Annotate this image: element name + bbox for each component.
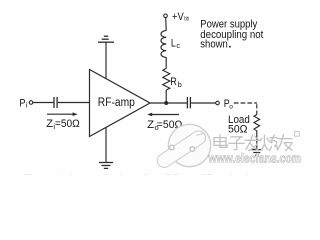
inductor Lc bbox=[161, 31, 166, 58]
label Po bbox=[224, 98, 233, 110]
char dian (electric) bbox=[214, 135, 227, 148]
wire C1 to amplifier input bbox=[58, 102, 90, 104]
label Lc bbox=[171, 37, 181, 50]
svg-text:bb: bb bbox=[184, 15, 189, 22]
svg-text:o: o bbox=[229, 103, 233, 110]
node Pi input terminal bbox=[29, 101, 33, 105]
resistor Rb bbox=[163, 68, 170, 90]
svg-text:Z: Z bbox=[46, 118, 53, 130]
arrow output impedance (points left) bbox=[147, 113, 179, 117]
svg-text:Z: Z bbox=[147, 119, 154, 131]
wire dashed Po to load bbox=[234, 102, 257, 104]
svg-text:shown: shown bbox=[200, 39, 228, 51]
label Zi=50ohm bbox=[46, 118, 80, 131]
svg-text:RF-amp: RF-amp bbox=[98, 97, 135, 109]
trademark mark bbox=[295, 132, 300, 137]
wire load resistor to ground bbox=[256, 131, 258, 150]
svg-text:L: L bbox=[171, 37, 176, 49]
watermark text dianzi fashaoyou bbox=[214, 132, 299, 151]
char shao (burn) bbox=[260, 135, 277, 151]
svg-text:c: c bbox=[176, 41, 180, 50]
char you (friend) bbox=[278, 135, 292, 151]
svg-text:+V: +V bbox=[172, 11, 184, 23]
svg-text:50Ω: 50Ω bbox=[228, 123, 248, 135]
node +Vbb supply terminal bbox=[164, 14, 168, 18]
wire Rb to output node bbox=[165, 90, 167, 103]
note power supply decoupling bbox=[200, 19, 263, 51]
node Po output terminal bbox=[216, 101, 220, 105]
junction node output bbox=[164, 101, 168, 105]
resistor RL load bbox=[254, 115, 260, 131]
wire dashed load drop bbox=[256, 104, 258, 114]
ground bottom below amplifier bbox=[99, 163, 113, 169]
svg-text:P: P bbox=[19, 97, 25, 109]
label +Vbb bbox=[172, 11, 189, 23]
wire Lc to Rb bbox=[165, 57, 167, 68]
char zi (child) bbox=[229, 137, 244, 150]
label Load 50ohm bbox=[228, 114, 250, 135]
wire amplifier output to C2 bbox=[150, 102, 187, 104]
wire input terminal to C1 bbox=[33, 102, 53, 104]
wire top ground to amplifier bbox=[105, 42, 107, 78]
capacitor C2 output coupling bbox=[187, 97, 190, 108]
svg-text:.: . bbox=[228, 39, 231, 51]
char fa (emit) bbox=[245, 135, 260, 151]
arrow input impedance (points right) bbox=[47, 112, 78, 116]
svg-text:i: i bbox=[26, 101, 28, 110]
op-amp U1 RF-amp triangle bbox=[90, 70, 151, 137]
capacitor C1 input coupling bbox=[54, 97, 57, 108]
wire C2 to Po terminal bbox=[191, 102, 216, 104]
watermark logo elecfans bbox=[155, 124, 211, 170]
svg-text:Figure 1. A generic view of an: Figure 1. A generic view of an RF amplif… bbox=[24, 172, 255, 175]
wire amplifier to bottom ground bbox=[105, 127, 107, 162]
svg-text:R: R bbox=[170, 76, 177, 88]
wire Vbb terminal to Lc bbox=[165, 18, 168, 31]
label Rb bbox=[170, 76, 181, 89]
svg-text:www.elecfans.com: www.elecfans.com bbox=[208, 152, 301, 166]
svg-text:=50Ω: =50Ω bbox=[55, 118, 80, 130]
ground top (flipped) above amplifier bbox=[98, 36, 114, 42]
ground load bbox=[251, 150, 262, 156]
label Zo=50ohm bbox=[147, 119, 182, 132]
svg-text:b: b bbox=[178, 80, 182, 89]
label Pi bbox=[19, 97, 28, 109]
